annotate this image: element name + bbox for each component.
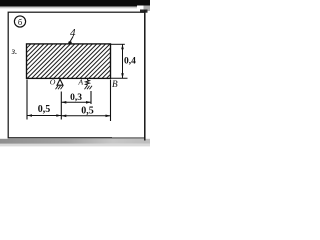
svg-text:0,3: 0,3 xyxy=(70,93,82,103)
svg-text:0,4: 0,4 xyxy=(124,57,136,67)
svg-text:б: б xyxy=(18,17,22,27)
svg-text:0,5: 0,5 xyxy=(38,104,51,115)
svg-text:B: B xyxy=(112,79,118,89)
svg-text:A: A xyxy=(77,78,83,87)
svg-text:4: 4 xyxy=(70,27,76,39)
svg-text:O: O xyxy=(50,77,56,86)
svg-text:0,5: 0,5 xyxy=(81,106,94,117)
svg-text:з.: з. xyxy=(11,46,18,56)
